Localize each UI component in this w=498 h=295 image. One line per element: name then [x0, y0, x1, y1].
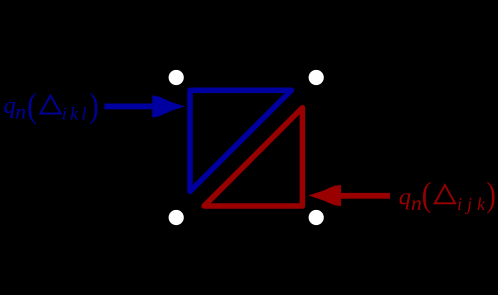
node dot bottom-left	[169, 210, 184, 225]
node dot top-left	[169, 70, 184, 85]
svg-text:ijk: ijk	[457, 194, 490, 214]
blue arrow head	[152, 95, 185, 117]
red arrow shaft	[338, 193, 390, 199]
red arrow head	[308, 185, 341, 206]
svg-text:q: q	[4, 92, 16, 119]
svg-text:q: q	[399, 184, 411, 211]
red triangle glyph	[435, 185, 455, 203]
svg-text:): )	[89, 86, 98, 124]
svg-text:ikl: ikl	[62, 104, 90, 124]
node dot top-right	[309, 70, 324, 85]
svg-text:): )	[486, 175, 495, 213]
blue triangle ikl (upper-left)	[190, 90, 291, 191]
svg-text:n: n	[411, 191, 422, 215]
svg-text:n: n	[15, 100, 26, 124]
svg-text:(: (	[422, 175, 431, 213]
red triangle ijk (lower-right)	[204, 108, 302, 206]
blue triangle glyph	[40, 95, 60, 113]
blue arrow shaft	[104, 104, 156, 110]
blue label q_n(triangle_ikl)	[4, 86, 99, 124]
svg-text:(: (	[27, 86, 36, 124]
node dot bottom-right	[309, 210, 324, 225]
red label q_n(triangle_ijk)	[399, 175, 496, 215]
